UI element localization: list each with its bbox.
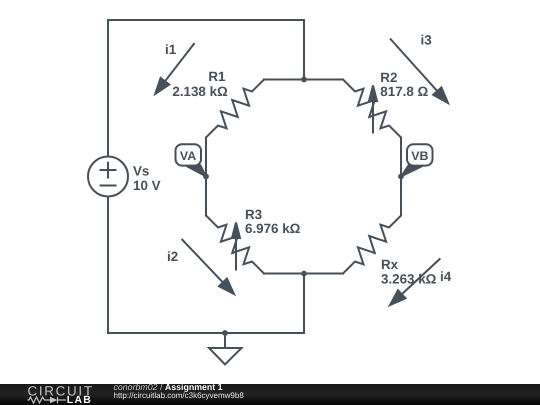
node VA junction <box>203 174 209 180</box>
node VA flag <box>176 144 207 177</box>
svg-text:R1: R1 <box>208 69 226 84</box>
node junction dots <box>203 77 404 336</box>
svg-text:Vs: Vs <box>133 164 149 179</box>
voltage source Vs circle <box>88 157 128 197</box>
current arrow i1 <box>155 43 194 94</box>
wire bridge top <box>264 79 343 81</box>
svg-text:LAB: LAB <box>67 395 92 405</box>
resistor Rx <box>343 216 401 274</box>
ground <box>224 333 226 348</box>
node VB junction <box>398 174 404 180</box>
current arrow i4 <box>390 258 440 305</box>
wire bottom node to bottom rail <box>303 274 305 334</box>
logo resistor-diode symbol <box>28 397 67 403</box>
node ground junction <box>222 330 228 336</box>
current arrow i3 <box>390 39 448 104</box>
wire left rail lower <box>108 197 304 334</box>
wire R1 leads <box>264 79 304 81</box>
resistor R3 <box>206 216 264 274</box>
current arrow i2 <box>182 239 234 294</box>
node VB flag <box>401 144 433 177</box>
svg-text:2.138 kΩ: 2.138 kΩ <box>172 84 228 99</box>
wire Rx leads <box>400 177 402 216</box>
Vs minus sign <box>101 185 116 187</box>
svg-text:10 V: 10 V <box>133 178 161 193</box>
node top junction <box>301 77 307 83</box>
svg-text:i4: i4 <box>440 269 452 284</box>
wire R2 leads <box>304 79 343 81</box>
svg-text:3.263 kΩ: 3.263 kΩ <box>381 272 437 287</box>
svg-text:VB: VB <box>411 149 428 163</box>
svg-text:6.976 kΩ: 6.976 kΩ <box>245 221 301 236</box>
svg-text:817.8 Ω: 817.8 Ω <box>380 84 428 99</box>
resistor R2 <box>343 80 401 138</box>
Vs plus sign <box>101 169 116 171</box>
wire R3 leads <box>205 177 207 216</box>
svg-text:http://circuitlab.com/c3k6cyve: http://circuitlab.com/c3k6cyvemw9b8 <box>114 391 245 400</box>
svg-text:Rx: Rx <box>381 257 399 272</box>
rheostat arrow R3 <box>232 223 240 271</box>
svg-text:VA: VA <box>180 149 196 163</box>
svg-text:i3: i3 <box>421 33 432 48</box>
wire bridge bottom <box>264 273 343 275</box>
svg-text:R2: R2 <box>380 70 397 85</box>
rheostat arrow R2 <box>369 86 377 134</box>
svg-text:i2: i2 <box>167 249 178 264</box>
svg-text:i1: i1 <box>165 42 177 57</box>
svg-text:R3: R3 <box>245 207 262 222</box>
resistor R1 <box>206 80 264 138</box>
wire top rail <box>108 20 304 157</box>
node bottom junction <box>301 271 307 277</box>
